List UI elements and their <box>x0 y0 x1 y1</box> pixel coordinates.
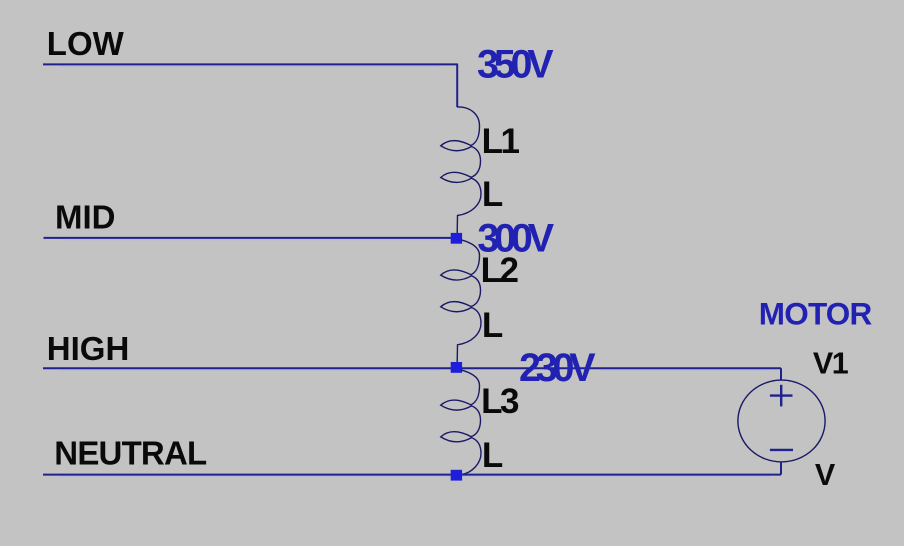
wire LOW horizontal <box>43 63 458 65</box>
voltage source V1 circle <box>738 380 825 462</box>
svg-text:L3: L3 <box>481 382 519 421</box>
svg-text:MOTOR: MOTOR <box>759 295 873 331</box>
junction node square 230V <box>451 362 462 373</box>
svg-text:L: L <box>482 436 503 475</box>
svg-text:LOW: LOW <box>47 25 125 62</box>
svg-text:MID: MID <box>55 199 116 236</box>
svg-text:L: L <box>482 175 503 214</box>
inductor L3 coil <box>441 370 481 475</box>
svg-text:L2: L2 <box>481 251 519 290</box>
svg-text:HIGH: HIGH <box>47 330 130 367</box>
wire vertical from LOW corner down to L1 <box>456 64 458 107</box>
wire motor top drop <box>780 368 782 380</box>
wire NEUTRAL horizontal <box>43 474 781 476</box>
wire HIGH horizontal <box>43 367 456 369</box>
svg-text:NEUTRAL: NEUTRAL <box>54 435 207 472</box>
inductor L2 coil <box>441 240 481 362</box>
junction node square 300V <box>451 233 462 244</box>
svg-text:V1: V1 <box>813 347 849 381</box>
plus sign <box>770 385 793 407</box>
svg-text:350V: 350V <box>477 43 554 87</box>
wire MID horizontal <box>44 237 457 239</box>
wire 230V from node to motor <box>457 367 781 369</box>
junction node square NEUTRAL <box>451 470 462 481</box>
inductor L1 coil <box>441 107 481 233</box>
wire motor bottom drop <box>780 462 782 475</box>
wire halo artifacts <box>60 66 770 476</box>
svg-text:V: V <box>815 458 836 492</box>
svg-text:L1: L1 <box>482 122 520 161</box>
minus sign <box>770 449 793 451</box>
svg-text:230V: 230V <box>519 346 596 390</box>
svg-text:L: L <box>482 306 503 345</box>
